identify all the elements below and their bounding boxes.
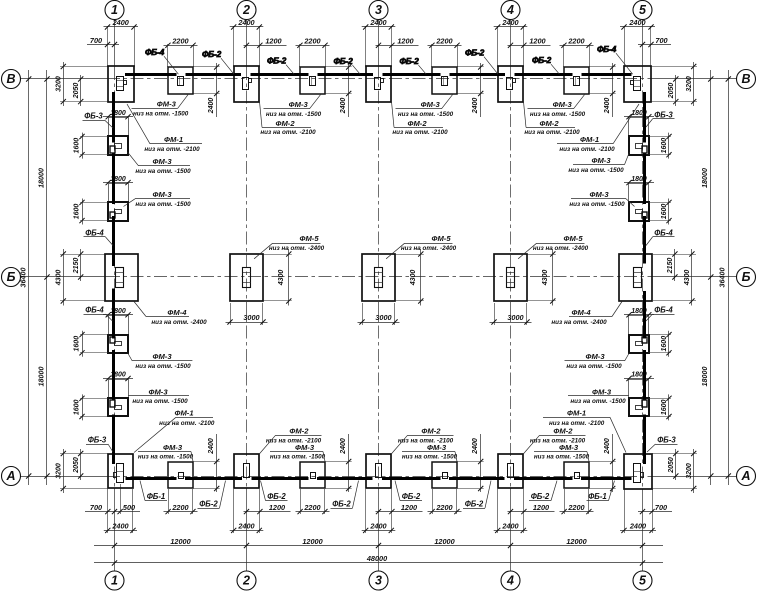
svg-text:2400: 2400 — [472, 438, 479, 455]
dimension 2400 bottom block axis 1 — [107, 489, 109, 533]
dimension 2200 top intermediate 4 — [560, 45, 594, 47]
svg-text:ФМ-1: ФМ-1 — [567, 409, 586, 418]
dimension 1200 top axis 2 — [244, 45, 287, 47]
svg-text:ФБ-3: ФБ-3 — [84, 112, 103, 121]
svg-text:низ на отм. -1500: низ на отм. -1500 — [566, 363, 622, 370]
svg-text:2400: 2400 — [112, 18, 129, 27]
svg-text:ФБ-2: ФБ-2 — [332, 500, 351, 509]
wire vertical axis 3 line — [378, 20, 380, 68]
svg-text:ФМ-3: ФМ-3 — [559, 443, 579, 452]
dimension 1600 col 1 — [82, 199, 84, 225]
dimension 1200 bottom axis 4 — [508, 511, 555, 513]
svg-text:3: 3 — [375, 3, 382, 17]
wire horizontal axis А line — [21, 476, 108, 478]
svg-text:500: 500 — [123, 503, 135, 512]
svg-text:1200: 1200 — [533, 503, 549, 512]
svg-text:2150: 2150 — [73, 258, 80, 275]
svg-text:1600: 1600 — [661, 400, 668, 416]
svg-text:низ на отм. -1500: низ на отм. -1500 — [135, 363, 191, 370]
svg-text:Б: Б — [742, 270, 751, 284]
svg-text:2400: 2400 — [237, 18, 254, 27]
foundation beam row В segment 5 — [383, 73, 441, 76]
svg-text:низ на отм. -1500: низ на отм. -1500 — [530, 111, 586, 118]
intermediate block ФМ-3 row А bay 1 — [168, 462, 193, 488]
dimension 3000 at Б/4 — [494, 303, 496, 325]
column insert Б axis 4 — [507, 268, 515, 288]
svg-text:ФМ-2: ФМ-2 — [289, 427, 309, 436]
svg-text:ФМ-2: ФМ-2 — [275, 119, 295, 128]
svg-text:низ на отм. -1500: низ на отм. -1500 — [135, 201, 191, 208]
foundation beam column 1 segment 5 — [112, 350, 115, 400]
svg-text:ФМ-1: ФМ-1 — [174, 409, 193, 418]
foundation beam row В segment 8 — [582, 73, 632, 76]
svg-text:ФМ-3: ФМ-3 — [152, 190, 172, 199]
svg-text:А: А — [740, 469, 750, 483]
dimension 2400 top block axis 1 — [107, 26, 109, 67]
foundation block ФМ-2 at В/2 — [234, 66, 259, 102]
svg-text:2400: 2400 — [111, 522, 128, 531]
svg-text:ФБ-2: ФБ-2 — [531, 492, 550, 501]
svg-text:низ на отм. -1500: низ на отм. -1500 — [138, 454, 194, 461]
svg-text:ФМ-3: ФМ-3 — [553, 100, 573, 109]
svg-text:4300: 4300 — [278, 270, 285, 287]
svg-text:2400: 2400 — [369, 18, 386, 27]
svg-text:ФМ-3: ФМ-3 — [148, 387, 168, 396]
svg-text:низ на отм. -1500: низ на отм. -1500 — [398, 111, 454, 118]
node axis 5 bottom circle — [633, 571, 652, 590]
svg-text:низ на отм. -1500: низ на отм. -1500 — [270, 454, 326, 461]
svg-text:ФБ-2: ФБ-2 — [399, 56, 419, 66]
svg-text:4: 4 — [506, 574, 514, 588]
svg-text:ФБ-2: ФБ-2 — [267, 56, 287, 66]
svg-text:низ на отм. -2100: низ на отм. -2100 — [559, 146, 615, 153]
dimension 3000 at Б/2 — [230, 303, 232, 325]
svg-text:2050: 2050 — [668, 83, 675, 100]
svg-text:3200: 3200 — [686, 463, 693, 479]
dimension 1800 col 5 — [624, 182, 654, 184]
svg-text:низ на отм. -1500: низ на отм. -1500 — [133, 110, 189, 117]
svg-text:низ на отм. -2100: низ на отм. -2100 — [392, 129, 448, 136]
svg-text:700: 700 — [90, 503, 102, 512]
dimension 1600 col 5 — [668, 133, 670, 159]
svg-text:3000: 3000 — [375, 313, 391, 322]
column insert intermediate В 4 — [574, 77, 580, 86]
intermediate block ФМ-3 row В bay 2 — [300, 67, 325, 94]
foundation beam row А segment 3 — [252, 477, 309, 480]
svg-text:18000: 18000 — [36, 168, 45, 188]
svg-text:2200: 2200 — [567, 503, 584, 512]
svg-text:12000: 12000 — [434, 537, 454, 546]
svg-text:1: 1 — [111, 574, 118, 588]
column insert В/5 — [634, 77, 641, 91]
dimension 2400 bottom block axis 4 — [497, 489, 499, 533]
dimension 1200 bottom axis 3 — [376, 511, 423, 513]
svg-text:2: 2 — [242, 3, 250, 17]
svg-text:700: 700 — [655, 36, 667, 45]
wire horizontal axis В line — [21, 78, 108, 80]
svg-text:1600: 1600 — [73, 138, 80, 154]
foundation block ФМ-5 at Б/3 — [362, 254, 395, 301]
dimension 2400 top block axis 4 — [497, 26, 499, 67]
foundation beam row В segment 7 — [515, 73, 573, 76]
foundation beam row В segment 1 — [125, 73, 177, 76]
svg-text:ФБ-4: ФБ-4 — [85, 306, 104, 315]
svg-text:А: А — [5, 469, 15, 483]
svg-text:ФБ-2: ФБ-2 — [402, 492, 421, 501]
dimension 700 bottom axis 5 — [638, 511, 672, 513]
svg-text:1600: 1600 — [73, 336, 80, 352]
foundation block ФМ-5 at Б/4 — [494, 254, 527, 301]
svg-text:ФМ-2: ФМ-2 — [553, 427, 573, 436]
svg-text:ФБ-2: ФБ-2 — [199, 500, 218, 509]
svg-text:низ на отм. -2100: низ на отм. -2100 — [260, 129, 316, 136]
svg-text:2400: 2400 — [501, 522, 518, 531]
dimension 1800 col 5 — [624, 314, 654, 316]
foundation beam column 5 segment 4 — [643, 291, 646, 339]
node axis В left circle — [2, 70, 21, 89]
dimension 1600 col 1 — [82, 331, 84, 357]
dimension chain 18000 left — [46, 70, 48, 485]
wire vertical axis 1 line — [114, 20, 116, 68]
svg-text:1200: 1200 — [269, 503, 285, 512]
dimension 1600 col 5 — [668, 394, 670, 420]
foundation block ФМ-2 at В/4 — [498, 66, 523, 102]
dimension 2400 vertical row А bay 4 — [612, 434, 614, 492]
dimension chain 36400 left — [28, 70, 30, 485]
foundation beam column 5 segment 3 — [643, 216, 646, 264]
svg-text:2400: 2400 — [604, 98, 611, 115]
svg-text:низ на отм. -2100: низ на отм. -2100 — [159, 420, 215, 427]
svg-text:2400: 2400 — [604, 438, 611, 455]
svg-text:ФБ-4: ФБ-4 — [145, 47, 165, 57]
dimension 2200 bottom intermediate 2 — [296, 511, 330, 513]
dimension 1600 col 5 — [668, 331, 670, 357]
svg-text:низ на отм. -2400: низ на отм. -2400 — [533, 245, 589, 252]
svg-text:ФБ-2: ФБ-2 — [465, 48, 485, 58]
foundation beam column 5 segment 1 — [643, 92, 646, 143]
svg-text:12000: 12000 — [302, 537, 322, 546]
svg-text:низ на отм. -2400: низ на отм. -2400 — [551, 319, 607, 326]
svg-text:2150: 2150 — [667, 258, 674, 275]
column insert В axis 3 — [375, 78, 381, 90]
foundation beam column 1 segment 4 — [112, 289, 115, 339]
column insert intermediate В 3 — [442, 77, 448, 86]
foundation beam row В segment 6 — [450, 73, 506, 76]
svg-text:ФБ-4: ФБ-4 — [597, 44, 617, 54]
svg-text:3200: 3200 — [55, 76, 62, 92]
svg-text:ФБ-1: ФБ-1 — [147, 492, 166, 501]
dimension 1800 col 1 — [103, 314, 133, 316]
svg-text:ФМ-3: ФМ-3 — [589, 190, 609, 199]
svg-text:ФМ-5: ФМ-5 — [431, 234, 451, 243]
dimension 2400 vertical row В bay 4 — [612, 63, 614, 117]
svg-text:ФМ-4: ФМ-4 — [571, 308, 591, 317]
intermediate block ФМ-3 row В bay 1 — [168, 67, 193, 94]
foundation beam row В segment 2 — [186, 73, 242, 76]
foundation beam row А segment 7 — [514, 477, 573, 480]
dimension 2200 bottom intermediate 1 — [164, 511, 198, 513]
svg-text:3000: 3000 — [507, 313, 523, 322]
svg-text:3200: 3200 — [55, 463, 62, 479]
column insert intermediate А 2 — [311, 473, 316, 479]
foundation block ФМ-5 at Б/2 — [230, 254, 263, 301]
column insert А axis 2 — [244, 464, 250, 478]
svg-text:2400: 2400 — [472, 98, 479, 115]
fachwerk foundation ФМ-3 col 1 y343 — [109, 316, 129, 335]
dimension 2200 bottom intermediate 4 — [560, 511, 594, 513]
svg-text:1200: 1200 — [401, 503, 417, 512]
dimension 1800 col 1 — [103, 182, 133, 184]
svg-text:В: В — [6, 72, 15, 86]
dimension 1200 top axis 3 — [376, 45, 419, 47]
column insert intermediate А 1 — [179, 473, 184, 479]
svg-text:2400: 2400 — [369, 522, 386, 531]
svg-text:1: 1 — [111, 3, 118, 17]
svg-text:2050: 2050 — [668, 457, 675, 474]
svg-text:18000: 18000 — [36, 367, 45, 387]
fachwerk foundation ФМ-3 col 1 y407 — [109, 380, 129, 399]
svg-text:36400: 36400 — [19, 268, 28, 288]
svg-text:2050: 2050 — [73, 457, 80, 474]
svg-text:ФМ-3: ФМ-3 — [152, 157, 172, 166]
svg-text:ФМ-3: ФМ-3 — [427, 443, 447, 452]
svg-text:36400: 36400 — [718, 268, 727, 288]
intermediate block ФМ-3 row В bay 4 — [564, 67, 589, 94]
svg-text:2200: 2200 — [567, 37, 584, 46]
intermediate block ФМ-3 row А bay 2 — [300, 462, 325, 488]
dimension 1600 col 5 — [668, 199, 670, 225]
svg-text:5: 5 — [639, 574, 647, 588]
column insert intermediate А 3 — [443, 473, 448, 479]
svg-text:2050: 2050 — [73, 83, 80, 100]
svg-text:2200: 2200 — [171, 503, 188, 512]
svg-text:ФМ-3: ФМ-3 — [163, 443, 183, 452]
svg-text:ФБ-1: ФБ-1 — [588, 492, 607, 501]
dimension 2400 vertical row А bay 2 — [348, 434, 350, 492]
foundation beam column 5 segment 2 — [643, 154, 646, 205]
svg-text:2200: 2200 — [435, 37, 452, 46]
dimension 1200 bottom axis 2 — [244, 511, 291, 513]
fachwerk foundation ФМ-3 col 5 y407 — [629, 380, 649, 399]
dimension 4300/2150 left row Б — [63, 249, 65, 306]
svg-text:1200: 1200 — [397, 37, 413, 46]
svg-text:2400: 2400 — [340, 98, 347, 115]
foundation block ФМ-4 at Б/5 — [619, 254, 652, 301]
dimension 2200 bottom intermediate 3 — [428, 511, 462, 513]
foundation beam column 1 segment 1 — [112, 92, 115, 143]
svg-text:В: В — [741, 72, 750, 86]
foundation beam row А segment 4 — [317, 477, 373, 480]
svg-text:2400: 2400 — [340, 438, 347, 455]
node axis 2 top circle — [237, 1, 256, 20]
svg-text:ФМ-3: ФМ-3 — [421, 100, 441, 109]
dimension 700/500 bottom axis 1 — [85, 511, 140, 513]
svg-text:низ на отм. -1500: низ на отм. -1500 — [534, 454, 590, 461]
dimension 2150/4300 right row Б — [691, 249, 693, 306]
dimension 2400 vertical row В bay 2 — [348, 63, 350, 117]
svg-text:низ на отм. -1500: низ на отм. -1500 — [569, 201, 625, 208]
svg-text:3200: 3200 — [686, 76, 693, 92]
svg-text:1600: 1600 — [73, 400, 80, 416]
svg-text:ФБ-2: ФБ-2 — [202, 49, 222, 59]
svg-text:ФБ-4: ФБ-4 — [654, 306, 673, 315]
svg-text:ФМ-1: ФМ-1 — [580, 135, 599, 144]
svg-text:1600: 1600 — [73, 204, 80, 220]
svg-text:низ на отм. -2400: низ на отм. -2400 — [151, 319, 207, 326]
svg-text:5: 5 — [639, 3, 647, 17]
foundation beam column 1 segment 3 — [112, 216, 115, 266]
dimension 2400 vertical row В bay 1 — [216, 63, 218, 117]
svg-text:1600: 1600 — [661, 204, 668, 220]
foundation beam column 1 segment 6 — [112, 415, 115, 465]
foundation block ФМ-1 at В/5 — [624, 66, 651, 102]
svg-text:700: 700 — [90, 36, 102, 45]
node axis Б left circle — [2, 268, 21, 287]
column insert intermediate В 2 — [310, 77, 316, 86]
svg-text:ФБ-2: ФБ-2 — [333, 56, 353, 66]
svg-text:ФМ-4: ФМ-4 — [167, 308, 187, 317]
svg-text:ФБ-3: ФБ-3 — [657, 436, 676, 445]
svg-text:Б: Б — [7, 270, 16, 284]
svg-text:2400: 2400 — [208, 98, 215, 115]
column insert Б axis 2 — [243, 268, 251, 288]
svg-text:2400: 2400 — [237, 522, 254, 531]
dimension 3000 at Б/3 — [362, 303, 364, 325]
foundation block ФМ-2 at А/4 — [498, 454, 523, 488]
dimension 4300 at Б/4 — [552, 249, 554, 306]
wire vertical axis 2 line — [246, 20, 248, 68]
foundation block ФМ-4 at Б/1 — [105, 254, 138, 301]
intermediate block ФМ-3 row В bay 3 — [432, 67, 457, 94]
foundation beam row А segment 5 — [382, 477, 441, 480]
svg-text:ФМ-3: ФМ-3 — [295, 443, 315, 452]
svg-text:ФМ-1: ФМ-1 — [164, 135, 183, 144]
dimension 2400 vertical row А bay 3 — [480, 434, 482, 492]
dimension 2400 top block axis 3 — [365, 26, 367, 67]
svg-text:1600: 1600 — [661, 336, 668, 352]
dimension 1800 col 5 — [624, 116, 654, 118]
svg-text:ФБ-3: ФБ-3 — [88, 436, 107, 445]
svg-text:ФМ-3: ФМ-3 — [585, 352, 605, 361]
svg-text:2200: 2200 — [435, 503, 452, 512]
foundation beam row В segment 4 — [318, 73, 374, 76]
intermediate block ФМ-3 row А bay 4 — [564, 462, 589, 488]
foundation block ФМ-1 at В/1 — [108, 66, 134, 102]
intermediate block ФМ-3 row А bay 3 — [432, 462, 457, 488]
svg-text:ФМ-2: ФМ-2 — [421, 427, 441, 436]
column insert intermediate А 4 — [575, 473, 580, 479]
dimension 2400 vertical row В bay 3 — [480, 63, 482, 117]
fachwerk foundation ФМ-3 col 5 y145 — [629, 118, 649, 137]
dimension 1600 col 1 — [82, 394, 84, 420]
svg-text:ФМ-3: ФМ-3 — [152, 352, 172, 361]
foundation beam row В segment 3 — [251, 73, 309, 76]
dimension 2400 top block axis 5 — [624, 26, 626, 67]
column insert А axis 4 — [508, 464, 514, 478]
svg-text:48000: 48000 — [366, 554, 387, 563]
column insert В axis 2 — [243, 78, 249, 90]
svg-text:низ на отм. -2100: низ на отм. -2100 — [144, 146, 200, 153]
dimension 1600 col 1 — [82, 133, 84, 159]
dimension 1800 col 5 — [624, 378, 654, 380]
svg-text:ФМ-5: ФМ-5 — [563, 234, 583, 243]
svg-text:18000: 18000 — [700, 168, 709, 188]
node axis 1 top circle — [105, 1, 124, 20]
svg-text:4300: 4300 — [684, 270, 691, 287]
svg-text:2400: 2400 — [208, 438, 215, 455]
svg-text:ФМ-5: ФМ-5 — [299, 234, 319, 243]
column insert Б axis 1 — [116, 268, 124, 288]
dimension 3200/2050 left row В — [63, 62, 65, 106]
node axis 3 bottom circle — [369, 571, 388, 590]
column insert intermediate В 1 — [178, 77, 184, 86]
dimension 2200 top intermediate 1 — [164, 45, 198, 47]
svg-text:2200: 2200 — [303, 503, 320, 512]
svg-text:4300: 4300 — [542, 270, 549, 287]
dimension 2050/3200 right row В — [693, 62, 695, 106]
node axis В right circle — [737, 70, 756, 89]
dimension chain 36400 right — [728, 70, 730, 485]
svg-text:низ на отм. -1500: низ на отм. -1500 — [570, 398, 626, 405]
column insert Б axis 5 — [634, 268, 642, 288]
svg-text:низ на отм. -1500: низ на отм. -1500 — [135, 168, 191, 175]
dimension chain 18000 right — [710, 70, 712, 485]
svg-text:ФМ-3: ФМ-3 — [591, 156, 611, 165]
dimension 2400 top block axis 2 — [233, 26, 235, 67]
svg-text:2: 2 — [242, 574, 250, 588]
node axis Б right circle — [737, 268, 756, 287]
dimension 2200 top intermediate 3 — [428, 45, 462, 47]
dimension 700 top axis 1 — [87, 44, 119, 46]
wire vertical axis 4 line — [510, 20, 512, 68]
svg-text:2400: 2400 — [629, 522, 646, 531]
column insert А/5 — [634, 464, 641, 483]
foundation beam row А segment 2 — [185, 477, 242, 480]
foundation beam row А segment 1 — [126, 477, 177, 480]
dimension 4300 at Б/2 — [288, 249, 290, 306]
svg-text:2200: 2200 — [303, 37, 320, 46]
svg-text:ФМ-3: ФМ-3 — [592, 387, 612, 396]
dimension 1800 col 1 — [103, 378, 133, 380]
foundation block ФМ-1 at А/1 — [108, 454, 133, 488]
dimension chain 48000 bottom — [94, 562, 663, 564]
svg-text:18000: 18000 — [700, 367, 709, 387]
wire vertical axis 5 line — [642, 20, 644, 68]
node axis А left circle — [2, 467, 21, 486]
svg-text:3: 3 — [375, 574, 382, 588]
svg-text:700: 700 — [655, 503, 667, 512]
svg-text:низ на отм. -1500: низ на отм. -1500 — [132, 398, 188, 405]
svg-text:1200: 1200 — [265, 37, 281, 46]
node axis 3 top circle — [369, 1, 388, 20]
svg-text:низ на отм. -2400: низ на отм. -2400 — [401, 245, 457, 252]
fachwerk foundation ФМ-3 col 1 y211 — [109, 184, 129, 203]
svg-text:4: 4 — [506, 3, 514, 17]
column insert Б axis 3 — [375, 268, 383, 288]
node axis 4 bottom circle — [501, 571, 520, 590]
svg-text:ФБ-2: ФБ-2 — [267, 492, 286, 501]
dimension 2400 bottom block axis 5 — [624, 489, 626, 533]
foundation block ФМ-2 at А/3 — [366, 454, 391, 488]
column insert В axis 4 — [507, 78, 513, 90]
dimension 1800 col 1 — [103, 116, 133, 118]
svg-text:ФМ-3: ФМ-3 — [157, 99, 177, 108]
svg-text:2400: 2400 — [501, 18, 518, 27]
dimension 4300 at Б/3 — [420, 249, 422, 306]
dimension 700 top axis 5 — [638, 44, 671, 46]
svg-text:низ на отм. -1500: низ на отм. -1500 — [402, 454, 458, 461]
svg-text:низ на отм. -1500: низ на отм. -1500 — [568, 167, 624, 174]
